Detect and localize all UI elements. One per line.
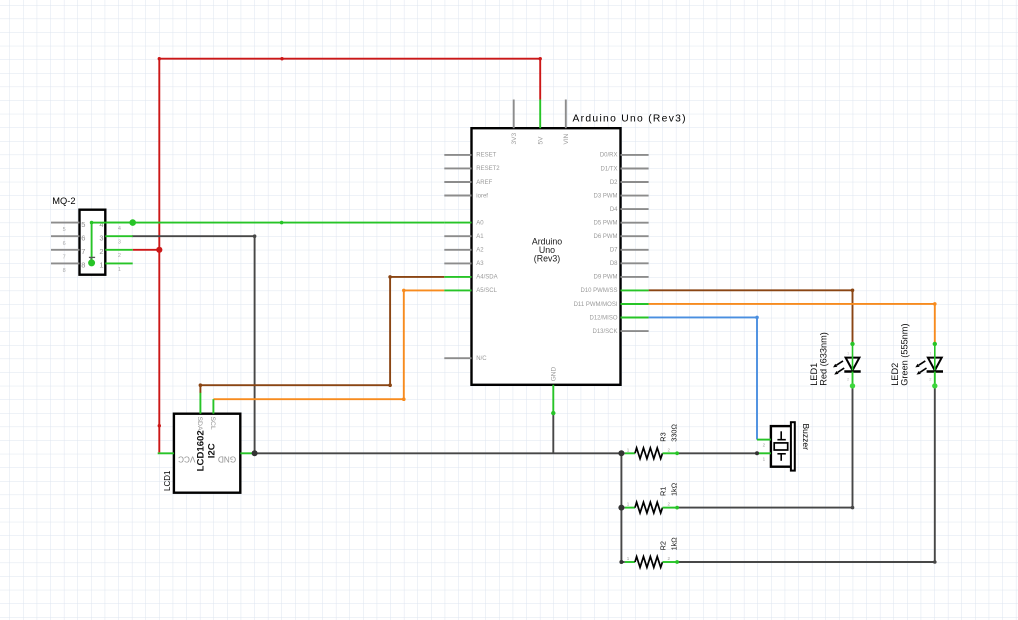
wire gray R1 row stub to junction [621,507,624,509]
svg-text:D13/SCK: D13/SCK [592,329,617,335]
wire orange drop to LED2 anode [934,304,936,344]
svg-text:R1: R1 [659,487,668,496]
node gray junction GND bus branch [618,450,624,456]
LCD1 ref label [163,470,172,491]
resistor R3 zigzag [635,448,663,459]
resistor R1 zigzag [635,502,663,513]
LCD main label LCD1602 I2C [196,430,218,471]
LCD pin GND label (rotated 180) [218,454,236,463]
wire blue vertical drop to buzzer pin2 [756,317,758,439]
svg-text:A5/SCL: A5/SCL [476,288,497,294]
resistor R1 labels [659,482,679,496]
pin D1/TX stub [621,168,649,170]
svg-text:Buzzer: Buzzer [801,424,811,451]
resistor R1 right stub [663,507,678,509]
pin GND stub [552,385,554,413]
LCD pin GND stub [240,452,253,454]
pin D12/MISO stub [621,317,649,319]
pin AREF stub [444,181,471,183]
svg-text:5V: 5V [538,136,545,145]
svg-text:A1: A1 [476,234,484,240]
resistor R3 right stub end dot [675,451,679,455]
pin RESET stub [444,154,471,156]
svg-text:ioref: ioref [476,193,488,199]
node brown bendpoint D10 corner [851,289,855,293]
pin GND label [551,367,558,382]
MQ-2 left pin 6 stub [51,235,80,237]
node gray junction GND bus at LCD [252,450,258,456]
wire blue D12 to buzzer horizontal [649,316,757,318]
LED LED2 labels [890,323,909,385]
MQ-2 right pin 3 stub [105,235,132,237]
svg-text:D8: D8 [610,261,618,267]
pin A0 stub [444,222,471,224]
LED LED2 cathode bar [927,370,943,373]
pin A3 stub [444,262,471,264]
LED LED1 triangle [846,358,860,371]
svg-text:LCD1602: LCD1602 [196,430,207,471]
wire green A0 net from MQ-2 pin4 to Arduino A0 [92,222,445,224]
svg-text:2: 2 [118,253,121,259]
svg-text:SCL: SCL [209,417,216,430]
svg-text:I2C: I2C [206,443,217,458]
svg-text:7: 7 [81,247,85,256]
pin A4/SDA stub [444,276,471,278]
node brown bendpoint SDA corner low [199,383,203,387]
buzzer bottom plate symbol [777,453,785,455]
node green junction MQ-2 pin4 [129,219,136,226]
pin 5V label [538,136,545,145]
buzzer pin2 stub [757,439,771,441]
svg-text:D12/MISO: D12/MISO [589,315,617,321]
node gray bendpoint before buzzer pin1 [755,451,759,455]
node orange bendpoint SCL corner high [402,289,406,293]
pin RESET2 stub [444,167,471,169]
LED LED1 emission arrow 1 [836,361,843,365]
svg-text:RESET2: RESET2 [476,166,500,172]
svg-text:1kΩ: 1kΩ [669,482,678,496]
LCD pin SCL stub [212,399,214,414]
svg-text:VIN: VIN [563,133,570,144]
pin D8 stub [621,262,649,264]
LED LED1 cathode stub [852,372,854,386]
wire red drop into 5V pin [539,59,541,100]
svg-text:D10 PWM/SS: D10 PWM/SS [580,288,617,294]
svg-text:D6 PWM: D6 PWM [594,234,618,240]
node green endpoint LED2 anode [933,342,937,346]
svg-text:8: 8 [81,261,85,270]
node red bendpoint top-left corner [158,57,161,60]
svg-text:R3: R3 [659,432,668,441]
svg-text:MQ-2: MQ-2 [52,196,75,206]
wire gray vertical GND branch to R1 R2 [620,453,622,562]
node green bendpoint A0 wire [280,221,284,225]
buzzer name label [801,424,811,451]
svg-text:A3: A3 [476,261,484,267]
LCD1 body [174,414,240,493]
wire gray LED2 cathode vertical [934,386,936,562]
buzzer pin1 stub [757,452,771,454]
LCD pin SDA label [196,417,203,431]
resistor R2 right stub end dot [675,560,679,564]
MQ-2 inner mark near pin8 [89,256,95,258]
resistor R3 labels [659,424,679,442]
wire red vertical rail left [158,59,160,453]
resistor R1 right stub end dot [675,506,679,510]
wire red top horizontal to Arduino 5V [159,58,540,60]
pin VIN stub [565,100,567,129]
wire brown drop to LED1 anode [852,290,854,344]
MQ-2 left pin 7 stub [51,249,80,251]
svg-text:(Rev3): (Rev3) [534,254,560,264]
LED LED2 cathode stub [934,372,936,386]
svg-text:Green (555nm): Green (555nm) [899,323,909,385]
svg-text:6: 6 [81,233,85,242]
svg-text:D2: D2 [610,180,618,186]
LCD pin SCL label [209,417,216,430]
pin D6 PWM stub [621,235,649,237]
LED LED1 anode stub through triangle [852,344,854,371]
wire gray LED1 cathode vertical [852,386,854,508]
svg-text:1kΩ: 1kΩ [669,537,678,551]
wire orange vertical [403,290,405,399]
svg-text:1: 1 [99,261,103,270]
LCD pin VCC stub [158,452,174,454]
node gray bendpoint MQ-2 pin3 corner [253,234,257,238]
resistor R2 left stub [625,561,635,563]
svg-text:Red (633nm): Red (633nm) [818,332,828,386]
buzzer crystal rect [774,443,788,450]
svg-text:D0/RX: D0/RX [600,153,618,159]
pin D5 PWM stub [621,222,649,224]
svg-text:GND: GND [551,367,558,382]
node gray endpoint R1-LED1 corner [851,506,855,510]
node brown bendpoint SDA corner mid [388,383,392,387]
svg-text:5: 5 [81,220,85,229]
node red bendpoint above LCD VCC [158,424,161,427]
svg-text:A2: A2 [476,248,484,254]
svg-text:4: 4 [118,226,121,232]
resistor R2 right stub [663,561,678,563]
svg-text:330Ω: 330Ω [669,424,678,442]
svg-text:5: 5 [63,227,66,233]
pin D10 PWM/SS stub [621,289,649,291]
svg-text:GND: GND [218,454,236,463]
svg-text:RESET: RESET [476,153,496,159]
wire orange horizontal to LCD SCL [213,398,403,400]
resistor R2 zigzag [635,557,663,568]
pin D3 PWM stub [621,195,649,197]
wire gray R3 to buzzer pin1 [677,452,757,454]
svg-text:A0: A0 [476,220,484,226]
wire gray Arduino GND drop [552,413,554,453]
svg-text:LCD1: LCD1 [163,470,172,491]
pin A2 stub [444,249,471,251]
pin A1 stub [444,235,471,237]
LED LED2 triangle [928,358,942,371]
MQ-2 inner green wire redraw over box [91,223,93,263]
resistor R3 left stub [625,452,635,454]
svg-text:1: 1 [118,267,121,273]
wire red 5V net: MQ-2 pin2 to vertical rail [133,249,160,251]
svg-text:VCC: VCC [178,454,195,463]
resistor R2 labels [659,537,679,551]
resistor R1 left stub [625,507,635,509]
MQ-2 right pin 2 stub [105,249,132,251]
wire gray R2 row stub to junction [621,561,624,563]
LED LED2 anode stub through triangle [934,344,936,371]
buzzer top plate symbol [780,431,782,439]
pin D11 PWM/MOSI stub [621,303,649,305]
node gray endpoint R2-LED2 corner [933,560,937,564]
svg-text:7: 7 [63,254,66,260]
node blue bendpoint D12 corner [755,316,759,320]
node green endpoint LED2 cathode [932,383,937,388]
node orange bendpoint D11 corner [933,302,937,306]
node green endpoint LED1 cathode [850,383,855,388]
LED LED2 emission arrow 2 [920,368,927,372]
wire gray MQ-2 pin3 vertical down [254,236,256,453]
pin VIN label [563,133,570,144]
svg-text:D4: D4 [610,207,618,213]
node red junction MQ-2 pin2 [156,247,162,253]
node green endpoint LED1 anode [850,342,854,346]
MQ-2 right pin 1 stub [105,262,132,264]
pin D4 stub [621,208,649,210]
LCD pin SDA stub [199,393,201,414]
svg-text:D9 PWM: D9 PWM [594,275,618,281]
pin D7 stub [621,249,649,251]
pin D0/RX stub [621,154,649,156]
pin D13/SCK stub [621,330,649,332]
pin D2 stub [621,181,649,183]
pin 5V stub [539,100,541,129]
wire brown A4/SDA horizontal from Arduino [390,276,444,278]
node green endpoint inside MQ-2 [88,259,95,266]
svg-text:8: 8 [63,268,66,274]
svg-text:3V3: 3V3 [511,133,518,145]
pin ioref stub [444,195,471,197]
MQ-2 sensor body [80,210,106,275]
svg-text:Arduino Uno (Rev3): Arduino Uno (Rev3) [573,113,687,124]
node orange bendpoint SCL corner low [402,397,406,401]
svg-text:D5 PWM: D5 PWM [594,221,618,227]
svg-text:D3 PWM: D3 PWM [594,193,618,199]
node red bendpoint mid top [280,57,283,60]
pin A5/SCL stub [444,289,471,291]
svg-text:6: 6 [63,241,66,247]
pin 3V3 stub [513,100,515,129]
pin 3V3 label [511,133,518,145]
svg-text:N/C: N/C [476,356,487,362]
LED LED1 emission arrow 2 [838,368,845,372]
svg-text:D11 PWM/MOSI: D11 PWM/MOSI [574,302,618,308]
svg-text:4: 4 [99,220,103,229]
svg-text:3: 3 [99,233,103,242]
wire gray R2 to LED2 horizontal [677,561,935,563]
LCD pin VCC label (rotated 180) [178,454,195,463]
node green endpoint Arduino GND [551,411,555,415]
svg-text:D1/TX: D1/TX [600,166,617,172]
wire gray GND bus horizontal [253,452,625,454]
svg-text:D7: D7 [610,248,618,254]
buzzer right bar [791,422,795,470]
wire orange D11 to LED2 horizontal [649,303,935,305]
wire brown vertical [389,277,391,385]
LED LED1 labels [809,332,828,386]
wire orange A5/SCL horizontal from Arduino [404,289,445,291]
wire brown short drop to LCD SDA pin [199,385,201,393]
node brown bendpoint SDA corner high [388,275,392,279]
wire brown D10 to LED1 horizontal [649,289,853,291]
MQ-2 right pin 4 stub [105,222,132,224]
node gray endpoint R2 branch [619,560,623,564]
svg-text:R2: R2 [659,541,668,550]
buzzer body [771,426,792,467]
pin N/C stub [444,357,471,359]
pin D9 PWM stub [621,276,649,278]
MQ-2 left pin 8 stub [51,262,80,264]
node gray junction R1 branch [618,505,624,511]
MQ-2 left pin 5 stub [51,222,80,224]
LED LED2 emission arrow 1 [919,361,926,365]
op-amp U? none; Arduino Uno (Rev3) body [472,128,621,385]
resistor R3 right stub [663,452,678,454]
svg-text:3: 3 [118,240,121,246]
wire green inside MQ-2 vertical [91,223,93,263]
node green small bend MQ-2 inner top [90,221,94,225]
LED LED1 cathode bar [844,370,860,373]
node red corner at 5V drop [539,57,542,60]
wire gray R1 to LED1 horizontal [677,507,852,509]
wire gray MQ-2 pin3 to GND bus horizontal [132,235,255,237]
wire brown horizontal to LCD SDA [200,384,390,386]
svg-text:SDA: SDA [196,417,203,431]
svg-text:AREF: AREF [476,180,492,186]
svg-text:2: 2 [99,247,103,256]
svg-text:A4/SDA: A4/SDA [476,275,497,281]
